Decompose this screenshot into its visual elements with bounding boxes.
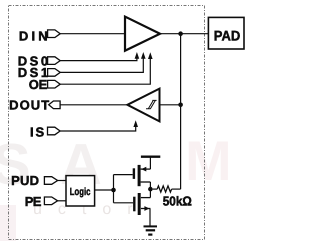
svg-text:IS: IS [30, 125, 46, 140]
pin DOUT [9, 98, 60, 113]
svg-text:OE: OE [29, 77, 48, 92]
svg-text:M: M [185, 129, 232, 192]
wire DOUT to input buffer [60, 104, 127, 106]
pin PUD [11, 173, 58, 188]
arrow DS1 into buffer [141, 52, 146, 59]
schmitt hysteresis symbol [146, 100, 157, 108]
wire PUD to logic [58, 180, 66, 182]
svg-text:50kΩ: 50kΩ [163, 194, 192, 209]
wire PE to logic [58, 200, 66, 202]
ground [144, 226, 158, 234]
wire pad net vertical [180, 34, 182, 189]
svg-text:PE: PE [25, 194, 42, 209]
op-amp U1 output buffer [125, 17, 160, 51]
svg-text:PAD: PAD [214, 27, 241, 43]
transistor Q2 (pull-down) [134, 189, 150, 215]
svg-text:DIN: DIN [19, 28, 51, 43]
svg-text:PUD: PUD [11, 173, 39, 188]
arrow IS into schmitt [133, 120, 138, 127]
node B junction (schmitt to pad net) [178, 103, 183, 108]
pad box PAD [208, 17, 244, 49]
cell boundary (dashed) [9, 6, 205, 240]
wire Q2 source to ground [149, 209, 151, 227]
node D junction (drain/resistor) [148, 187, 153, 192]
wire IS [60, 126, 136, 131]
wire gate bus vertical [113, 175, 115, 203]
wire VDD to Q1 source [149, 157, 151, 169]
wire lower gate [114, 202, 134, 204]
pin OE [29, 77, 60, 92]
pin IS [30, 125, 60, 140]
wire upper gate [114, 174, 133, 176]
arrow OE into buffer [148, 52, 153, 59]
arrow DS0 into buffer [135, 52, 140, 59]
wire DIN to buffer [60, 33, 125, 35]
wire DS0 [60, 58, 137, 61]
wire logic output to gates node [95, 189, 114, 191]
svg-text:DOUT: DOUT [9, 98, 50, 113]
transistor Q1 (pull-up) [134, 165, 151, 189]
resistor R1 50k [153, 186, 181, 192]
node C junction (gates) [111, 188, 116, 193]
pin DS1 [18, 65, 60, 80]
op-amp U2 input schmitt buffer [127, 89, 159, 122]
pin DS0 [18, 54, 60, 69]
wire DS1 [60, 58, 143, 72]
pin PE [25, 194, 58, 209]
node A junction (pad net top) [178, 31, 183, 36]
wire schmitt output [160, 104, 181, 106]
svg-text:Logic: Logic [70, 187, 91, 198]
pin DIN [19, 28, 60, 43]
power rail VDD [141, 155, 160, 157]
logic block U3 [66, 176, 95, 206]
wire buffer output to PAD [160, 33, 208, 35]
wire OE [60, 58, 150, 84]
